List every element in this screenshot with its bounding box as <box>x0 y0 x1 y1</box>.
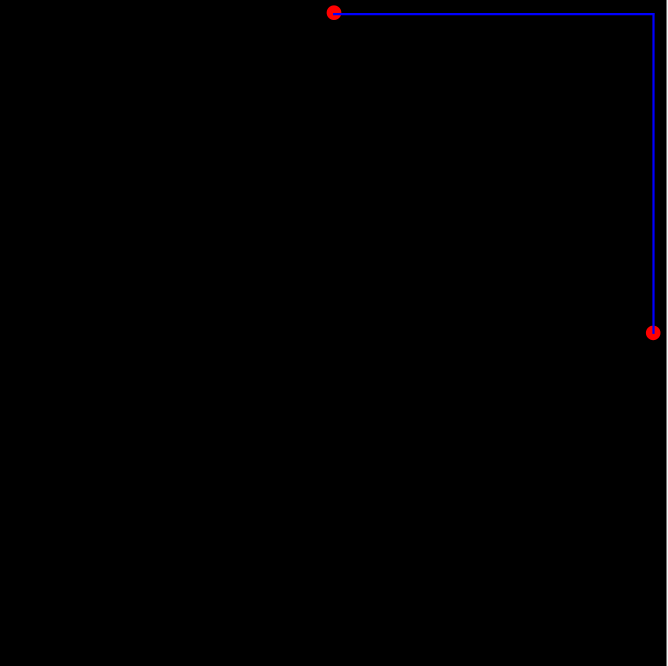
wire W1 vertical segment (corner to node B) <box>652 13 654 334</box>
wire W1 horizontal segment (node A to corner) <box>333 13 655 15</box>
node B (red terminal, bottom right) <box>646 326 661 341</box>
node A (red terminal, top) <box>327 5 342 20</box>
